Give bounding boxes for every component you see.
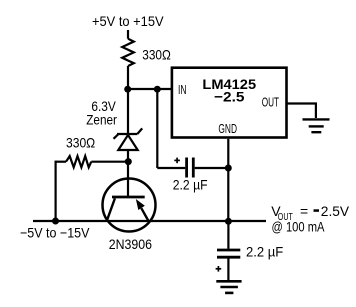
- wire node A to IN pin: [128, 88, 171, 90]
- resistor R1: [122, 39, 134, 66]
- capacitor C1: [187, 158, 194, 178]
- junction output node: [225, 218, 232, 225]
- wire node A to zener cathode: [127, 89, 129, 134]
- wire R2 to corner: [56, 161, 66, 163]
- svg-text:IN: IN: [178, 83, 187, 97]
- C1 polarity +: [174, 158, 180, 164]
- junction node B (IN tap): [154, 86, 161, 93]
- wire node B down to C1: [156, 89, 158, 168]
- C2 polarity +: [216, 266, 222, 272]
- junction node C: [125, 158, 132, 165]
- output label VOUT: [271, 203, 350, 235]
- svg-text:−2.5: −2.5: [214, 90, 245, 105]
- junction GND/C1 node: [225, 165, 232, 172]
- zener diode D1 6.3V: [114, 128, 143, 150]
- svg-text:GND: GND: [218, 122, 237, 136]
- wire OUT pin to ground: [287, 104, 316, 119]
- svg-text:+5V to +15V: +5V to +15V: [92, 13, 164, 29]
- svg-text:@ 100 mA: @ 100 mA: [272, 219, 326, 235]
- svg-text:2.2 µF: 2.2 µF: [173, 176, 208, 192]
- wire C2 to ground: [227, 258, 229, 280]
- svg-text:−5V to −15V: −5V to −15V: [20, 225, 90, 241]
- svg-text:OUT: OUT: [262, 96, 279, 110]
- wire GND pin down: [227, 139, 229, 222]
- wire to C1 left plate: [157, 167, 185, 169]
- junction node A: [124, 86, 131, 93]
- junction -V rail: [52, 218, 59, 225]
- svg-text:2N3906: 2N3906: [109, 236, 152, 252]
- wire node C to R2: [91, 161, 128, 163]
- D1 label 6.3V Zener: [86, 98, 117, 127]
- svg-text:2.2 µF: 2.2 µF: [246, 243, 283, 259]
- ground G1: [303, 119, 330, 132]
- wire zener anode to node C: [127, 150, 129, 162]
- ground G2: [216, 281, 241, 293]
- capacitor C2: [217, 250, 240, 257]
- wire C1 right plate to GND node: [195, 167, 229, 169]
- wire R1 to node A: [127, 66, 129, 89]
- resistor R2: [66, 156, 91, 167]
- svg-text:Zener: Zener: [86, 111, 117, 127]
- svg-text:=: =: [300, 203, 308, 219]
- wire corner down to -V rail: [54, 161, 56, 221]
- wire +V supply to R1: [127, 30, 129, 39]
- transistor Q1 2N3906: [103, 179, 156, 232]
- wire output node to C2: [227, 221, 229, 249]
- wire node C to Q1 base: [127, 162, 129, 197]
- regulator U1 LM4125 box: [172, 68, 287, 138]
- svg-text:330Ω: 330Ω: [142, 47, 171, 63]
- -V rail wire: [33, 220, 266, 222]
- svg-text:330Ω: 330Ω: [66, 134, 95, 150]
- svg-text:2.5V: 2.5V: [321, 203, 350, 219]
